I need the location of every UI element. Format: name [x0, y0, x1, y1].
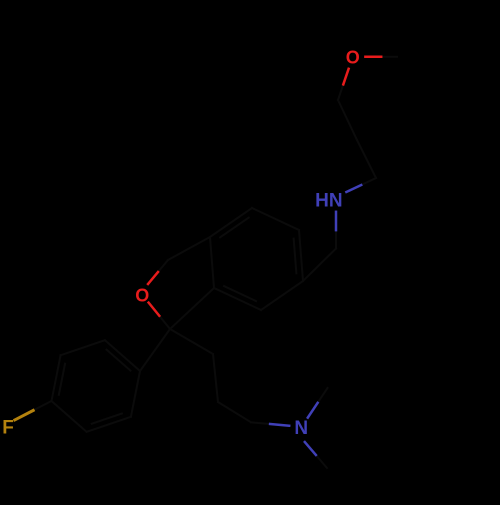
svg-text:O: O	[346, 47, 360, 67]
svg-text:HN: HN	[315, 191, 342, 212]
svg-text:O: O	[135, 285, 149, 305]
svg-text:N: N	[294, 418, 308, 439]
svg-text:F: F	[2, 417, 14, 438]
